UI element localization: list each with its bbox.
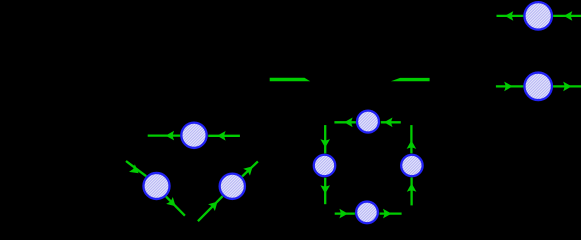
- molecule Dleft: [314, 155, 336, 177]
- bar left (tapered right end): [270, 78, 311, 82]
- arrowhead down-right (T2 upper arrow): [129, 164, 142, 177]
- wire: arrow shaft below molecule Dright: [410, 178, 412, 206]
- molecule T1: [181, 123, 206, 148]
- wire: arrow shaft left of molecule Dtop: [334, 121, 356, 123]
- wire: arrow shaft right of molecule R2: [553, 85, 581, 87]
- molecule R1: [524, 2, 552, 30]
- arrowhead up-right (T3 lower arrow): [208, 198, 221, 211]
- molecule T2: [143, 173, 169, 199]
- arrowhead left (T1 right arrow): [217, 131, 226, 141]
- arrowhead down (Dleft lower arrow): [320, 185, 330, 194]
- wire: arrow shaft below molecule Dleft: [324, 178, 326, 204]
- wire: arrow shaft upper-right of molecule T3: [242, 161, 258, 176]
- arrowhead up-right (T3 upper arrow): [243, 163, 256, 176]
- arrowhead left (Dtop right arrow): [384, 118, 393, 128]
- arrowhead up (Dright lower arrow): [407, 183, 417, 192]
- bar right (tapered left end): [391, 78, 430, 81]
- molecule Dbottom: [356, 202, 378, 224]
- arrowhead up (Dright upper arrow): [407, 140, 417, 149]
- arrowhead down-right (T2 lower arrow): [166, 197, 179, 210]
- molecule Dright: [401, 155, 423, 177]
- wire: arrow shaft right of molecule R1: [553, 15, 581, 17]
- wire: arrow shaft lower-left of molecule T3: [198, 196, 223, 221]
- arrowhead right (R2 left arrow): [504, 82, 513, 92]
- molecule R2: [524, 73, 552, 101]
- wire: arrow shaft lower-right of molecule T2: [166, 196, 185, 215]
- arrowhead down (Dleft upper arrow): [320, 139, 330, 148]
- arrowhead left (T1 left arrow): [166, 131, 175, 141]
- molecule T3: [220, 174, 245, 199]
- molecule Dtop: [357, 111, 379, 133]
- arrowhead right (R2 right arrow): [563, 82, 572, 92]
- arrowhead left (Dtop left arrow): [344, 118, 353, 128]
- arrowhead right (Dbottom left arrow): [339, 209, 348, 219]
- wire: arrow shaft upper-left of molecule T2: [126, 161, 146, 176]
- wire: arrow shaft left of molecule Dbottom: [335, 212, 355, 214]
- wire: arrow shaft above molecule Dleft: [324, 125, 326, 153]
- wire: arrow shaft left of molecule R1: [497, 15, 524, 17]
- wire: arrow shaft above molecule Dright: [410, 125, 412, 153]
- wire: arrow shaft left of molecule R2: [496, 85, 524, 87]
- arrowhead left (R1 right arrow): [564, 11, 573, 21]
- wire: arrow shaft right of molecule Dtop: [381, 121, 401, 123]
- wire: arrow shaft right of molecule T1: [208, 135, 240, 137]
- wire: arrow shaft left of molecule T1: [148, 134, 181, 136]
- arrowhead right (Dbottom right arrow): [383, 209, 392, 219]
- arrowhead left (R1 left arrow): [505, 11, 514, 21]
- wire: arrow shaft right of molecule Dbottom: [380, 212, 402, 214]
